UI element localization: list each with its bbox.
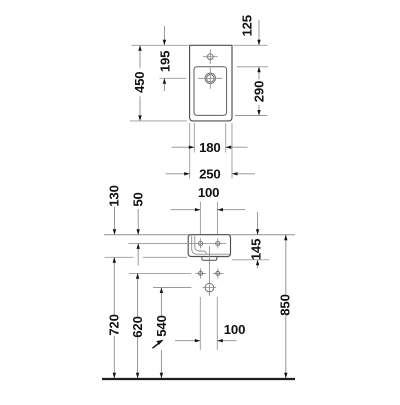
- dim 100 lower line: [175, 340, 237, 342]
- front view: upper fixing hole left: [199, 241, 203, 245]
- top view: extension line at bowl bottom right: [235, 115, 267, 117]
- dim 100 lower arrow left: [217, 339, 223, 342]
- front view: basin body: [188, 235, 230, 257]
- svg-text:180: 180: [199, 140, 220, 155]
- top view: extension line 250 right: [231, 123, 233, 179]
- dim 540 line: [160, 288, 162, 379]
- svg-text:130: 130: [107, 185, 122, 206]
- dim 450 arrow up: [138, 45, 141, 51]
- dim 250 line: [166, 173, 255, 175]
- dim 290 arrow up: [257, 67, 260, 73]
- dim 290 line: [258, 67, 260, 116]
- front view: upper fixing hole right tick: [217, 238, 219, 248]
- dim 180 arrow right: [189, 146, 195, 149]
- top view: basin outer rim: [190, 45, 232, 121]
- top view: drain cross vertical: [209, 68, 211, 89]
- dim 125 arrow down: [257, 40, 260, 46]
- svg-text:100: 100: [198, 185, 219, 200]
- front view: lower fixing hole right cross: [213, 268, 224, 278]
- svg-text:145: 145: [248, 239, 263, 260]
- top view: extension line 180 left: [193, 123, 195, 153]
- dim 540 arrow up: [160, 288, 163, 294]
- dim 100 line: [171, 209, 246, 211]
- dim 540 leader arrow NE: [153, 344, 159, 349]
- top view: extension line at rim bottom: [130, 120, 187, 122]
- dim 195 arrow up: [163, 78, 166, 84]
- dim 180 arrow left: [226, 146, 232, 149]
- dim 850 line: [285, 235, 287, 379]
- svg-text:250: 250: [199, 167, 220, 182]
- dim 620 arrow up: [136, 273, 139, 279]
- front view: drain outlet circle: [205, 283, 214, 292]
- front view: drain outlet cross horizontal: [203, 287, 217, 289]
- front view: bowl section inner line: [195, 236, 207, 254]
- top view: extension line 180 right: [225, 123, 227, 153]
- top view: inner bowl: [194, 67, 227, 116]
- dim 620 arrow down: [136, 373, 139, 379]
- svg-text:540: 540: [154, 315, 169, 336]
- dim 100 lower extension lines: [200, 297, 217, 350]
- front view: bowl section outer line: [192, 236, 231, 254]
- dim 100 arrow right: [195, 208, 201, 211]
- dim 130 arrow down: [113, 229, 116, 235]
- svg-text:50: 50: [131, 192, 146, 206]
- top view: faucet hole cross vertical: [209, 49, 211, 64]
- dim 145 arrow up: [256, 260, 259, 266]
- top view: extension line left at rim top: [132, 44, 189, 46]
- dim 720 line: [113, 257, 115, 378]
- front view: extension line underside left: [105, 256, 188, 258]
- front view: lower fixing hole left cross: [196, 268, 207, 278]
- svg-text:125: 125: [240, 15, 255, 36]
- dim 250 arrow left: [232, 172, 238, 175]
- front view: centre line to drain: [208, 246, 210, 296]
- front view: upper fixing hole right: [216, 241, 220, 245]
- front view: lower fixing hole right: [216, 271, 220, 275]
- dim 195 stems: [163, 26, 165, 91]
- front view: extension line at drain height: [153, 287, 192, 289]
- dim 50 arrow down: [137, 229, 140, 235]
- dim 145 stems: [257, 212, 259, 268]
- dim 720 arrow up: [113, 257, 116, 263]
- front view: wall line: [104, 234, 295, 236]
- dim 125 stem: [258, 20, 260, 46]
- top view: drain cross horizontal: [198, 77, 222, 79]
- dim 720 arrow down: [113, 373, 116, 379]
- top view: drain outer circle: [205, 73, 215, 83]
- svg-text:620: 620: [130, 316, 145, 337]
- dim 100 lower arrow right: [195, 339, 201, 342]
- dim 290 arrow down: [257, 110, 260, 116]
- top view: faucet hole circle: [207, 54, 213, 60]
- front view: upper fixing hole left tick: [200, 238, 202, 248]
- dim 850 arrow down: [284, 373, 287, 379]
- front view: drain boss: [202, 257, 217, 261]
- svg-text:720: 720: [106, 314, 121, 335]
- top view: extension line right at rim top: [234, 44, 268, 46]
- top view: extension line 250 left: [189, 123, 191, 179]
- dim 450 line: [139, 45, 141, 121]
- dim 50 arrow up: [137, 243, 140, 249]
- svg-text:195: 195: [157, 51, 172, 72]
- dim 100 (tap hole spacing) extension lines: [200, 202, 217, 235]
- front view: lower fixing hole left: [199, 271, 203, 275]
- top view: drain inner circle: [207, 75, 214, 82]
- front view: lower fixing hole line: [129, 272, 191, 274]
- svg-text:450: 450: [132, 72, 147, 93]
- svg-text:850: 850: [277, 294, 292, 315]
- svg-text:100: 100: [224, 322, 245, 337]
- dim 145 extension line bottom: [232, 259, 269, 261]
- dim 100 arrow left: [218, 208, 224, 211]
- top view: faucet hole cross horizontal: [203, 56, 218, 58]
- front view: fixing hole line upper: [129, 242, 227, 244]
- dim 130 stem: [114, 207, 116, 235]
- top view: extension line at bowl top right: [237, 66, 269, 68]
- dim 180 line: [172, 146, 248, 148]
- top view: extension line at drain centre (195): [160, 77, 187, 79]
- dim 620 line: [137, 273, 139, 378]
- dim 50 stems: [137, 209, 139, 266]
- dim 450 arrow down: [138, 115, 141, 121]
- dim 145 arrow down: [256, 229, 259, 235]
- dim 250 arrow right: [184, 172, 190, 175]
- floor line: [102, 378, 295, 380]
- dim 195 arrow down: [163, 40, 166, 46]
- dim 540 arrow down: [160, 373, 163, 379]
- svg-text:290: 290: [252, 81, 267, 102]
- dim 850 arrow up: [284, 235, 287, 241]
